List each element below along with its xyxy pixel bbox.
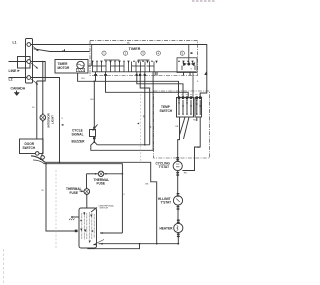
svg-text:TIMER: TIMER <box>129 47 141 51</box>
svg-text:BUZZER: BUZZER <box>72 139 86 143</box>
svg-text:BU: BU <box>127 43 130 45</box>
svg-text:RD: RD <box>184 173 188 175</box>
svg-text:5: 5 <box>124 194 126 196</box>
svg-text:OR: OR <box>175 126 179 128</box>
svg-text:SWITCH: SWITCH <box>160 109 173 113</box>
svg-text:L1: L1 <box>13 41 17 45</box>
svg-text:T'STAT: T'STAT <box>159 165 170 169</box>
svg-text:L2: L2 <box>9 78 13 82</box>
svg-text:R: R <box>143 116 145 119</box>
svg-text:9: 9 <box>197 81 199 83</box>
svg-text:CANADA: CANADA <box>11 87 26 91</box>
svg-text:BU: BU <box>62 50 65 52</box>
svg-text:SWITCH: SWITCH <box>23 146 36 150</box>
svg-text:RD: RD <box>193 119 197 121</box>
svg-text:FUSE: FUSE <box>97 182 106 186</box>
svg-text:16: 16 <box>32 107 35 109</box>
svg-text:BU: BU <box>91 99 94 101</box>
svg-text:BK: BK <box>146 184 149 186</box>
svg-text:▶: ▶ <box>18 69 21 73</box>
svg-text:FUSE: FUSE <box>70 191 79 195</box>
svg-text:LINE: LINE <box>9 69 17 73</box>
svg-text:9: 9 <box>191 69 193 71</box>
svg-text:W: W <box>42 190 45 192</box>
svg-text:9: 9 <box>62 118 64 120</box>
svg-text:MOTOR: MOTOR <box>58 66 71 70</box>
svg-text:T'STAT: T'STAT <box>161 200 172 204</box>
svg-text:BU: BU <box>82 78 85 80</box>
svg-text:SIGNAL: SIGNAL <box>72 132 84 136</box>
svg-text:SWITCH: SWITCH <box>100 208 109 210</box>
svg-text:LIGHT: LIGHT <box>51 115 55 124</box>
svg-text:HEATER: HEATER <box>160 227 174 231</box>
